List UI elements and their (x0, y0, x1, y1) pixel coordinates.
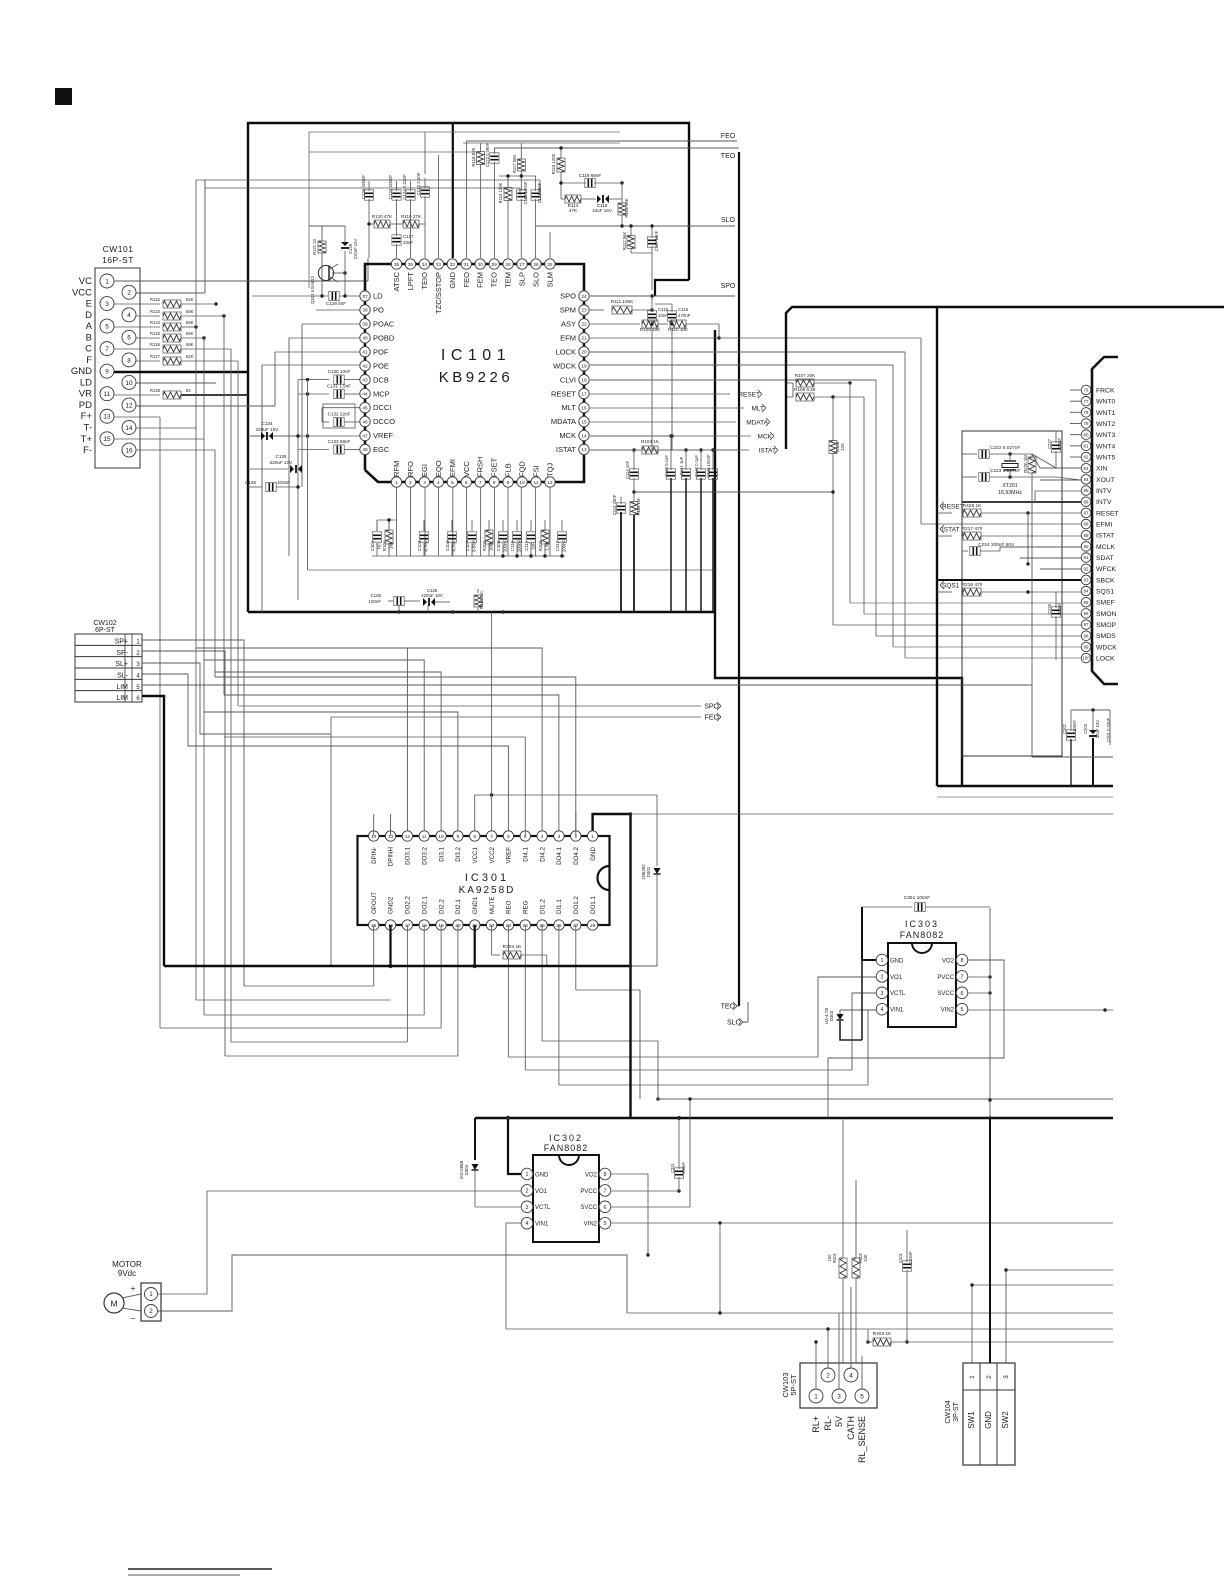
svg-text:POE: POE (373, 361, 389, 370)
svg-text:MCP: MCP (373, 389, 390, 398)
svg-text:41: 41 (362, 350, 368, 356)
svg-text:6: 6 (465, 480, 468, 486)
svg-text:5P-ST: 5P-ST (789, 1374, 798, 1396)
svg-text:12: 12 (125, 402, 133, 409)
svg-text:33nF: 33nF (403, 240, 413, 245)
svg-text:3: 3 (423, 480, 426, 486)
svg-text:R105 1M: R105 1M (636, 498, 641, 516)
svg-text:MCLK: MCLK (1096, 544, 1115, 551)
svg-text:DCCI: DCCI (373, 403, 391, 412)
svg-text:SQS1: SQS1 (1096, 589, 1114, 596)
svg-text:ISTAT: ISTAT (1096, 533, 1114, 540)
svg-text:SDAT: SDAT (1096, 555, 1114, 562)
svg-text:R101: R101 (382, 540, 387, 551)
svg-text:82: 82 (1084, 455, 1089, 460)
svg-text:FEO: FEO (721, 133, 736, 140)
svg-text:TEO: TEO (721, 153, 736, 160)
svg-text:28: 28 (505, 262, 511, 268)
svg-text:VCTL: VCTL (890, 991, 906, 997)
svg-text:DI3.2: DI3.2 (455, 846, 462, 861)
svg-text:8: 8 (127, 357, 131, 364)
svg-text:VO2: VO2 (585, 1172, 598, 1178)
svg-text:SVCC: SVCC (937, 991, 954, 997)
svg-text:SMON: SMON (1096, 611, 1116, 618)
svg-text:10nF: 10nF (658, 313, 668, 318)
svg-text:56K: 56K (186, 331, 194, 336)
svg-text:R401: R401 (832, 1252, 837, 1263)
svg-text:76: 76 (1084, 388, 1089, 393)
svg-text:C121 68nF: C121 68nF (537, 182, 542, 203)
svg-text:C127: C127 (403, 234, 414, 239)
svg-text:R304 1K: R304 1K (503, 944, 522, 950)
svg-text:C113 33nF: C113 33nF (612, 494, 617, 515)
svg-text:80: 80 (1084, 432, 1089, 437)
svg-text:WNT0: WNT0 (1096, 399, 1115, 406)
svg-text:7: 7 (961, 974, 964, 980)
svg-text:DO1.2: DO1.2 (573, 896, 580, 914)
svg-text:R118 82K: R118 82K (471, 147, 476, 166)
svg-text:C115: C115 (658, 307, 669, 312)
svg-text:INTV: INTV (1096, 499, 1112, 506)
svg-text:T-: T- (84, 423, 92, 434)
svg-text:R110 10K: R110 10K (668, 327, 689, 332)
svg-text:XIN: XIN (1096, 466, 1107, 473)
svg-text:PVCC: PVCC (580, 1189, 597, 1195)
svg-text:R403 1K: R403 1K (873, 1331, 892, 1337)
svg-text:9: 9 (507, 480, 510, 486)
svg-text:DO4.1: DO4.1 (556, 846, 563, 864)
svg-text:C134: C134 (262, 421, 273, 426)
svg-text:100nF: 100nF (681, 1162, 686, 1174)
svg-text:C311: C311 (670, 1162, 675, 1172)
svg-text:RL_SENSE: RL_SENSE (857, 1416, 867, 1463)
svg-text:EGC: EGC (373, 445, 390, 454)
svg-text:3: 3 (136, 662, 140, 668)
svg-text:D304: D304 (464, 1164, 469, 1175)
svg-text:FRCK: FRCK (1096, 388, 1115, 395)
svg-text:R122: R122 (150, 297, 161, 302)
svg-text:CW104: CW104 (945, 1400, 952, 1423)
svg-text:EFMI: EFMI (1096, 522, 1112, 529)
svg-text:1: 1 (136, 640, 140, 646)
svg-text:4: 4 (541, 834, 544, 840)
svg-text:ISTAT: ISTAT (556, 445, 577, 454)
svg-text:VIN2: VIN2 (584, 1222, 598, 1228)
svg-text:96: 96 (1084, 611, 1089, 616)
svg-text:DCB: DCB (373, 375, 389, 384)
svg-text:10uF 16V: 10uF 16V (1095, 720, 1100, 738)
svg-text:3: 3 (1003, 1375, 1010, 1379)
svg-text:95: 95 (1084, 600, 1089, 605)
svg-text:C114 1nF: C114 1nF (625, 461, 630, 480)
svg-text:ASY: ASY (561, 320, 576, 329)
svg-text:KA9258D: KA9258D (459, 885, 516, 896)
svg-text:11: 11 (534, 480, 539, 486)
svg-text:4: 4 (127, 312, 131, 319)
svg-text:100nF: 100nF (1057, 438, 1062, 450)
svg-text:VO1: VO1 (890, 975, 903, 981)
svg-text:12: 12 (547, 480, 553, 486)
svg-text:1: 1 (881, 958, 884, 964)
svg-text:R104 1K: R104 1K (641, 439, 660, 444)
svg-text:C130 10nF: C130 10nF (328, 369, 351, 374)
svg-text:KB9226: KB9226 (439, 369, 513, 386)
svg-text:81: 81 (1084, 443, 1089, 448)
svg-text:D301: D301 (646, 866, 651, 877)
svg-text:C136: C136 (245, 480, 256, 485)
svg-text:RL+: RL+ (811, 1416, 821, 1433)
svg-text:E: E (86, 299, 92, 310)
svg-text:4: 4 (849, 1372, 853, 1379)
svg-text:30: 30 (478, 262, 484, 268)
svg-text:C125 100nF: C125 100nF (388, 175, 393, 199)
svg-text:7: 7 (105, 346, 109, 353)
svg-text:1: 1 (814, 1393, 818, 1400)
svg-text:FEM: FEM (476, 272, 485, 288)
svg-text:43: 43 (362, 377, 368, 383)
svg-text:T+: T+ (81, 434, 93, 445)
svg-text:CW101: CW101 (103, 244, 134, 254)
svg-text:82: 82 (186, 388, 191, 393)
svg-text:SLO: SLO (721, 217, 736, 224)
svg-text:GND: GND (448, 271, 457, 288)
svg-text:OPOUT: OPOUT (371, 892, 378, 914)
svg-text:C142 0.1uF: C142 0.1uF (694, 455, 699, 477)
svg-text:LOCK: LOCK (1096, 656, 1115, 663)
svg-text:C227: C227 (1047, 438, 1052, 449)
svg-text:LD: LD (373, 292, 383, 301)
svg-text:SLO: SLO (532, 272, 541, 287)
svg-text:R129 NC: R129 NC (479, 591, 484, 609)
svg-text:WNT4: WNT4 (1096, 443, 1115, 450)
svg-text:ISTAT: ISTAT (759, 447, 776, 454)
svg-text:FEO: FEO (462, 272, 471, 288)
svg-text:VO2: VO2 (942, 958, 955, 964)
svg-text:INTV: INTV (1096, 488, 1112, 495)
svg-text:3P-ST: 3P-ST (953, 1401, 960, 1422)
svg-text:CATH: CATH (846, 1416, 856, 1440)
svg-text:GND2: GND2 (388, 896, 395, 914)
svg-text:FSI: FSI (532, 465, 541, 477)
svg-text:87: 87 (1084, 511, 1089, 516)
svg-text:12: 12 (405, 834, 411, 840)
svg-text:ATSC: ATSC (392, 271, 401, 291)
svg-text:17: 17 (581, 391, 587, 397)
svg-text:R103: R103 (538, 540, 543, 551)
svg-text:DO4.2: DO4.2 (573, 846, 580, 864)
svg-text:C401: C401 (898, 1252, 903, 1263)
svg-text:DO3.2: DO3.2 (421, 846, 428, 864)
svg-text:C203: C203 (1083, 723, 1088, 734)
svg-text:6P-ST: 6P-ST (95, 627, 116, 634)
svg-text:POBD: POBD (373, 333, 395, 342)
svg-text:+: + (131, 1284, 136, 1293)
svg-text:WFCK: WFCK (1096, 566, 1116, 573)
svg-text:SMEF: SMEF (1096, 600, 1115, 607)
svg-text:85: 85 (1084, 488, 1089, 493)
svg-text:LIM: LIM (116, 695, 128, 702)
svg-text:23: 23 (581, 308, 587, 314)
svg-text:10K: 10K (863, 1254, 868, 1262)
svg-text:R124: R124 (150, 320, 161, 325)
svg-text:DI2.1: DI2.1 (455, 899, 462, 914)
svg-text:SL-: SL- (117, 672, 129, 679)
svg-text:SPM: SPM (560, 306, 576, 315)
svg-text:16: 16 (581, 405, 587, 411)
svg-text:2: 2 (526, 1188, 529, 1194)
svg-text:WNT5: WNT5 (1096, 455, 1115, 462)
svg-text:34: 34 (422, 262, 428, 268)
svg-text:REO: REO (506, 900, 513, 914)
svg-text:15: 15 (581, 419, 587, 425)
svg-text:RFO: RFO (406, 461, 415, 477)
svg-text:VIN2: VIN2 (941, 1008, 955, 1014)
svg-text:GND: GND (984, 1411, 993, 1429)
svg-text:21: 21 (581, 336, 587, 342)
svg-text:RESET: RESET (551, 389, 576, 398)
svg-text:3: 3 (837, 1393, 841, 1400)
svg-text:RL-: RL- (823, 1416, 833, 1431)
svg-text:DO2.1: DO2.1 (421, 896, 428, 914)
svg-text:XT201: XT201 (1002, 483, 1017, 489)
svg-text:GND: GND (71, 366, 92, 377)
svg-text:4: 4 (136, 673, 140, 679)
svg-text:C117 15nF: C117 15nF (654, 230, 659, 251)
svg-text:37: 37 (362, 294, 368, 300)
svg-text:10: 10 (125, 380, 133, 387)
svg-text:24: 24 (581, 294, 587, 300)
svg-text:1: 1 (105, 278, 109, 285)
svg-text:94: 94 (1084, 589, 1089, 594)
svg-text:PVCC: PVCC (937, 975, 954, 981)
svg-text:R216 470: R216 470 (962, 582, 983, 588)
svg-text:0.33nF: 0.33nF (908, 1251, 913, 1264)
svg-text:R117 56K: R117 56K (512, 155, 517, 174)
svg-text:WNT1: WNT1 (1096, 410, 1115, 417)
svg-text:90: 90 (1084, 544, 1089, 549)
svg-text:R217 470: R217 470 (962, 526, 983, 532)
svg-text:SL+: SL+ (115, 661, 128, 668)
svg-text:MDATA: MDATA (746, 419, 768, 426)
svg-text:FAN8082: FAN8082 (900, 930, 945, 940)
svg-text:SLP: SLP (518, 272, 527, 286)
svg-text:C223 0.027nF: C223 0.027nF (990, 468, 1020, 474)
svg-text:77: 77 (1084, 399, 1089, 404)
svg-text:DI4.1: DI4.1 (522, 846, 529, 861)
svg-text:VC: VC (79, 276, 92, 287)
svg-text:C351 100nF: C351 100nF (904, 895, 930, 901)
svg-text:16P-ST: 16P-ST (102, 255, 134, 265)
svg-text:220uF 10V: 220uF 10V (256, 427, 279, 432)
svg-text:C124 0.22nF: C124 0.22nF (402, 174, 407, 200)
svg-text:FRSH: FRSH (476, 457, 485, 477)
svg-text:WNT3: WNT3 (1096, 432, 1115, 439)
svg-text:LOCK: LOCK (556, 347, 576, 356)
svg-text:14: 14 (125, 425, 133, 432)
svg-text:EGI: EGI (420, 464, 429, 477)
svg-text:TEO: TEO (490, 272, 499, 288)
svg-text:82K: 82K (186, 297, 194, 302)
svg-text:9: 9 (105, 369, 109, 376)
svg-text:5: 5 (136, 685, 140, 691)
svg-text:R128: R128 (150, 388, 161, 393)
svg-text:R120 47K: R120 47K (372, 214, 393, 219)
svg-text:SP+: SP+ (115, 639, 128, 646)
svg-text:86: 86 (1084, 499, 1089, 504)
svg-text:EFMI: EFMI (448, 459, 457, 477)
svg-text:35: 35 (408, 262, 414, 268)
svg-text:2: 2 (986, 1375, 993, 1379)
svg-text:C143 100nF: C143 100nF (706, 454, 711, 477)
svg-text:D303: D303 (829, 1010, 834, 1021)
svg-text:C123 2.2nF: C123 2.2nF (416, 172, 421, 195)
svg-text:IC302: IC302 (549, 1133, 583, 1143)
svg-text:6: 6 (136, 696, 140, 702)
svg-text:GND: GND (590, 846, 597, 860)
svg-text:93: 93 (1084, 578, 1089, 583)
svg-text:7: 7 (604, 1188, 607, 1194)
svg-text:R127: R127 (150, 354, 161, 359)
svg-text:C126 100nF: C126 100nF (361, 175, 366, 199)
svg-text:2: 2 (409, 480, 412, 486)
svg-text:4: 4 (437, 480, 440, 486)
svg-text:6: 6 (127, 335, 131, 342)
svg-text:CW102: CW102 (93, 620, 116, 627)
svg-text:R119 27K: R119 27K (401, 214, 422, 219)
svg-text:45: 45 (362, 405, 368, 411)
svg-text:Q101 KSA812: Q101 KSA812 (310, 275, 315, 304)
svg-text:11: 11 (422, 834, 427, 840)
svg-text:C122 0.39nF: C122 0.39nF (485, 142, 490, 167)
svg-text:DO2.2: DO2.2 (405, 896, 412, 914)
svg-text:C120 100nF: C120 100nF (523, 181, 528, 204)
svg-text:R116 120K: R116 120K (498, 182, 503, 203)
svg-text:9Vdc: 9Vdc (118, 1269, 136, 1278)
svg-text:R123: R123 (150, 309, 161, 314)
svg-text:SPO: SPO (721, 283, 736, 290)
svg-text:78: 78 (1084, 410, 1089, 415)
svg-text:48: 48 (362, 447, 368, 453)
svg-text:DO1.1: DO1.1 (590, 896, 597, 914)
svg-text:VCC2: VCC2 (489, 846, 496, 863)
svg-text:R109 10K: R109 10K (640, 327, 661, 332)
svg-text:29: 29 (491, 262, 497, 268)
svg-text:16.93MHz: 16.93MHz (998, 490, 1022, 496)
svg-text:10: 10 (438, 834, 444, 840)
svg-text:79: 79 (1084, 421, 1089, 426)
svg-text:5V: 5V (834, 1416, 844, 1427)
svg-text:28: 28 (590, 923, 596, 929)
svg-text:TQJ: TQJ (545, 463, 554, 477)
svg-text:5: 5 (860, 1393, 864, 1400)
svg-text:SMOP: SMOP (1096, 622, 1116, 629)
svg-text:3: 3 (105, 301, 109, 308)
svg-text:DPINH: DPINH (388, 847, 395, 866)
svg-text:16: 16 (125, 447, 133, 454)
svg-text:1: 1 (395, 480, 398, 486)
svg-text:8: 8 (493, 480, 496, 486)
svg-text:_: _ (130, 1310, 136, 1319)
svg-text:1: 1 (969, 1375, 976, 1379)
svg-text:3: 3 (881, 991, 884, 997)
svg-text:2: 2 (136, 651, 140, 657)
svg-text:8: 8 (604, 1172, 607, 1178)
svg-text:R113 15K: R113 15K (624, 198, 629, 217)
svg-text:C222 0.027nF: C222 0.027nF (990, 445, 1020, 451)
svg-text:C226: C226 (1047, 603, 1052, 614)
svg-text:6: 6 (604, 1205, 607, 1211)
svg-text:RESET: RESET (942, 503, 964, 510)
svg-text:RFM: RFM (392, 461, 401, 477)
svg-text:DPIN-: DPIN- (371, 847, 378, 864)
svg-text:56K: 56K (186, 320, 194, 325)
svg-text:89: 89 (1084, 533, 1089, 538)
svg-text:DO3.1: DO3.1 (405, 846, 412, 864)
svg-text:R121 10: R121 10 (312, 238, 317, 255)
svg-text:C132 22nF: C132 22nF (328, 412, 351, 417)
svg-text:20: 20 (581, 350, 587, 356)
svg-text:RESET: RESET (738, 391, 760, 398)
svg-text:UZ-4.7B: UZ-4.7B (824, 1008, 829, 1024)
svg-text:DCCO: DCCO (373, 417, 395, 426)
svg-text:R115 120K: R115 120K (551, 153, 556, 174)
svg-text:11: 11 (104, 391, 111, 398)
svg-text:100nF: 100nF (277, 480, 290, 485)
svg-text:C119 68nF: C119 68nF (579, 173, 602, 178)
svg-text:2: 2 (826, 1372, 830, 1379)
svg-text:56K: 56K (186, 309, 194, 314)
svg-text:83: 83 (1084, 466, 1089, 471)
svg-text:7: 7 (479, 480, 482, 486)
svg-text:DI4.2: DI4.2 (539, 846, 546, 861)
svg-text:3: 3 (558, 834, 561, 840)
svg-text:CLVI: CLVI (560, 375, 576, 384)
svg-text:27: 27 (519, 262, 525, 268)
svg-text:8: 8 (473, 834, 476, 840)
svg-text:91: 91 (1084, 555, 1089, 560)
svg-text:SLM: SLM (545, 272, 554, 287)
svg-text:SPO: SPO (560, 292, 576, 301)
svg-text:100nF: 100nF (1057, 603, 1062, 615)
svg-text:R112 56K: R112 56K (622, 232, 627, 251)
svg-text:TEIO: TEIO (420, 272, 429, 290)
svg-text:R102: R102 (482, 540, 487, 551)
svg-text:MLT: MLT (562, 403, 577, 412)
svg-text:MUTE: MUTE (489, 896, 496, 914)
svg-text:6: 6 (507, 834, 510, 840)
svg-text:FLB: FLB (504, 463, 513, 477)
svg-text:100: 100 (1082, 656, 1090, 661)
svg-text:32: 32 (450, 262, 456, 268)
svg-text:EQO: EQO (434, 460, 443, 477)
svg-text:97: 97 (1084, 622, 1089, 627)
svg-text:FAN8082: FAN8082 (544, 1143, 589, 1153)
svg-text:C202: C202 (1062, 723, 1067, 734)
svg-text:MDATA: MDATA (551, 417, 576, 426)
svg-text:5: 5 (451, 480, 454, 486)
svg-text:R106 8.2K: R106 8.2K (794, 387, 817, 392)
svg-text:C135: C135 (276, 454, 287, 459)
svg-text:C141 1uF: C141 1uF (679, 456, 684, 475)
svg-text:4: 4 (526, 1221, 529, 1227)
svg-text:1N5392: 1N5392 (641, 864, 646, 880)
svg-text:M: M (110, 1299, 117, 1309)
svg-text:D: D (85, 310, 92, 321)
svg-text:SVCC: SVCC (580, 1205, 597, 1211)
svg-text:33: 33 (436, 262, 442, 268)
svg-text:VIN1: VIN1 (890, 1008, 904, 1014)
svg-text:R111 100K: R111 100K (611, 299, 634, 304)
